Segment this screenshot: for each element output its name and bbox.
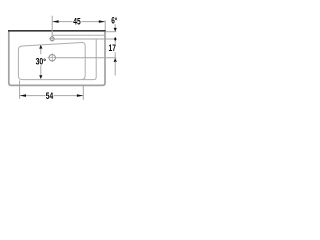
- dim 54 left arrow: [20, 94, 26, 97]
- dim 30 top arrow: [39, 45, 42, 49]
- 6 deg arrow: [114, 28, 117, 32]
- dim 30 line: [40, 45, 42, 78]
- dim 54 extension left: [19, 81, 21, 99]
- bowl outline: [18, 39, 96, 79]
- dim 54 extension right: [82, 86, 84, 100]
- ledge line y39: [54, 38, 116, 40]
- drain hole circle: [49, 55, 55, 61]
- dim 45 extension line right: [104, 20, 106, 30]
- dim 45 left arrow: [52, 20, 58, 23]
- svg-text:17: 17: [109, 43, 116, 54]
- svg-text:6°: 6°: [111, 15, 117, 26]
- dim 17 line stubs: [114, 41, 116, 58]
- dim 30 label: [35, 55, 48, 65]
- tap hole circle: [50, 37, 54, 41]
- right margin line (6 deg level): [105, 31, 116, 33]
- dim 17 diamond marker: [114, 37, 117, 41]
- dim 30 bottom arrow: [39, 75, 42, 79]
- dim 17 bottom arrow: [114, 58, 117, 62]
- dim 45 extension line left (tap centerline): [51, 16, 53, 37]
- dim 54 line: [20, 95, 83, 97]
- 6 deg leader line: [114, 24, 116, 28]
- svg-text:45: 45: [73, 17, 81, 28]
- dim 54 right arrow: [77, 94, 83, 97]
- washbasin outer body (left/bottom/right edges): [9, 30, 105, 85]
- deck line: [52, 34, 104, 36]
- drain centerline: [56, 57, 117, 59]
- svg-text:30°: 30°: [36, 57, 47, 68]
- dim 45 line: [53, 21, 105, 23]
- svg-text:54: 54: [46, 91, 54, 102]
- dim 45 right arrow: [99, 20, 105, 23]
- dim 17 tail: [114, 61, 116, 75]
- washbasin top edge: [8, 30, 106, 32]
- bowl inner wall: [82, 43, 86, 80]
